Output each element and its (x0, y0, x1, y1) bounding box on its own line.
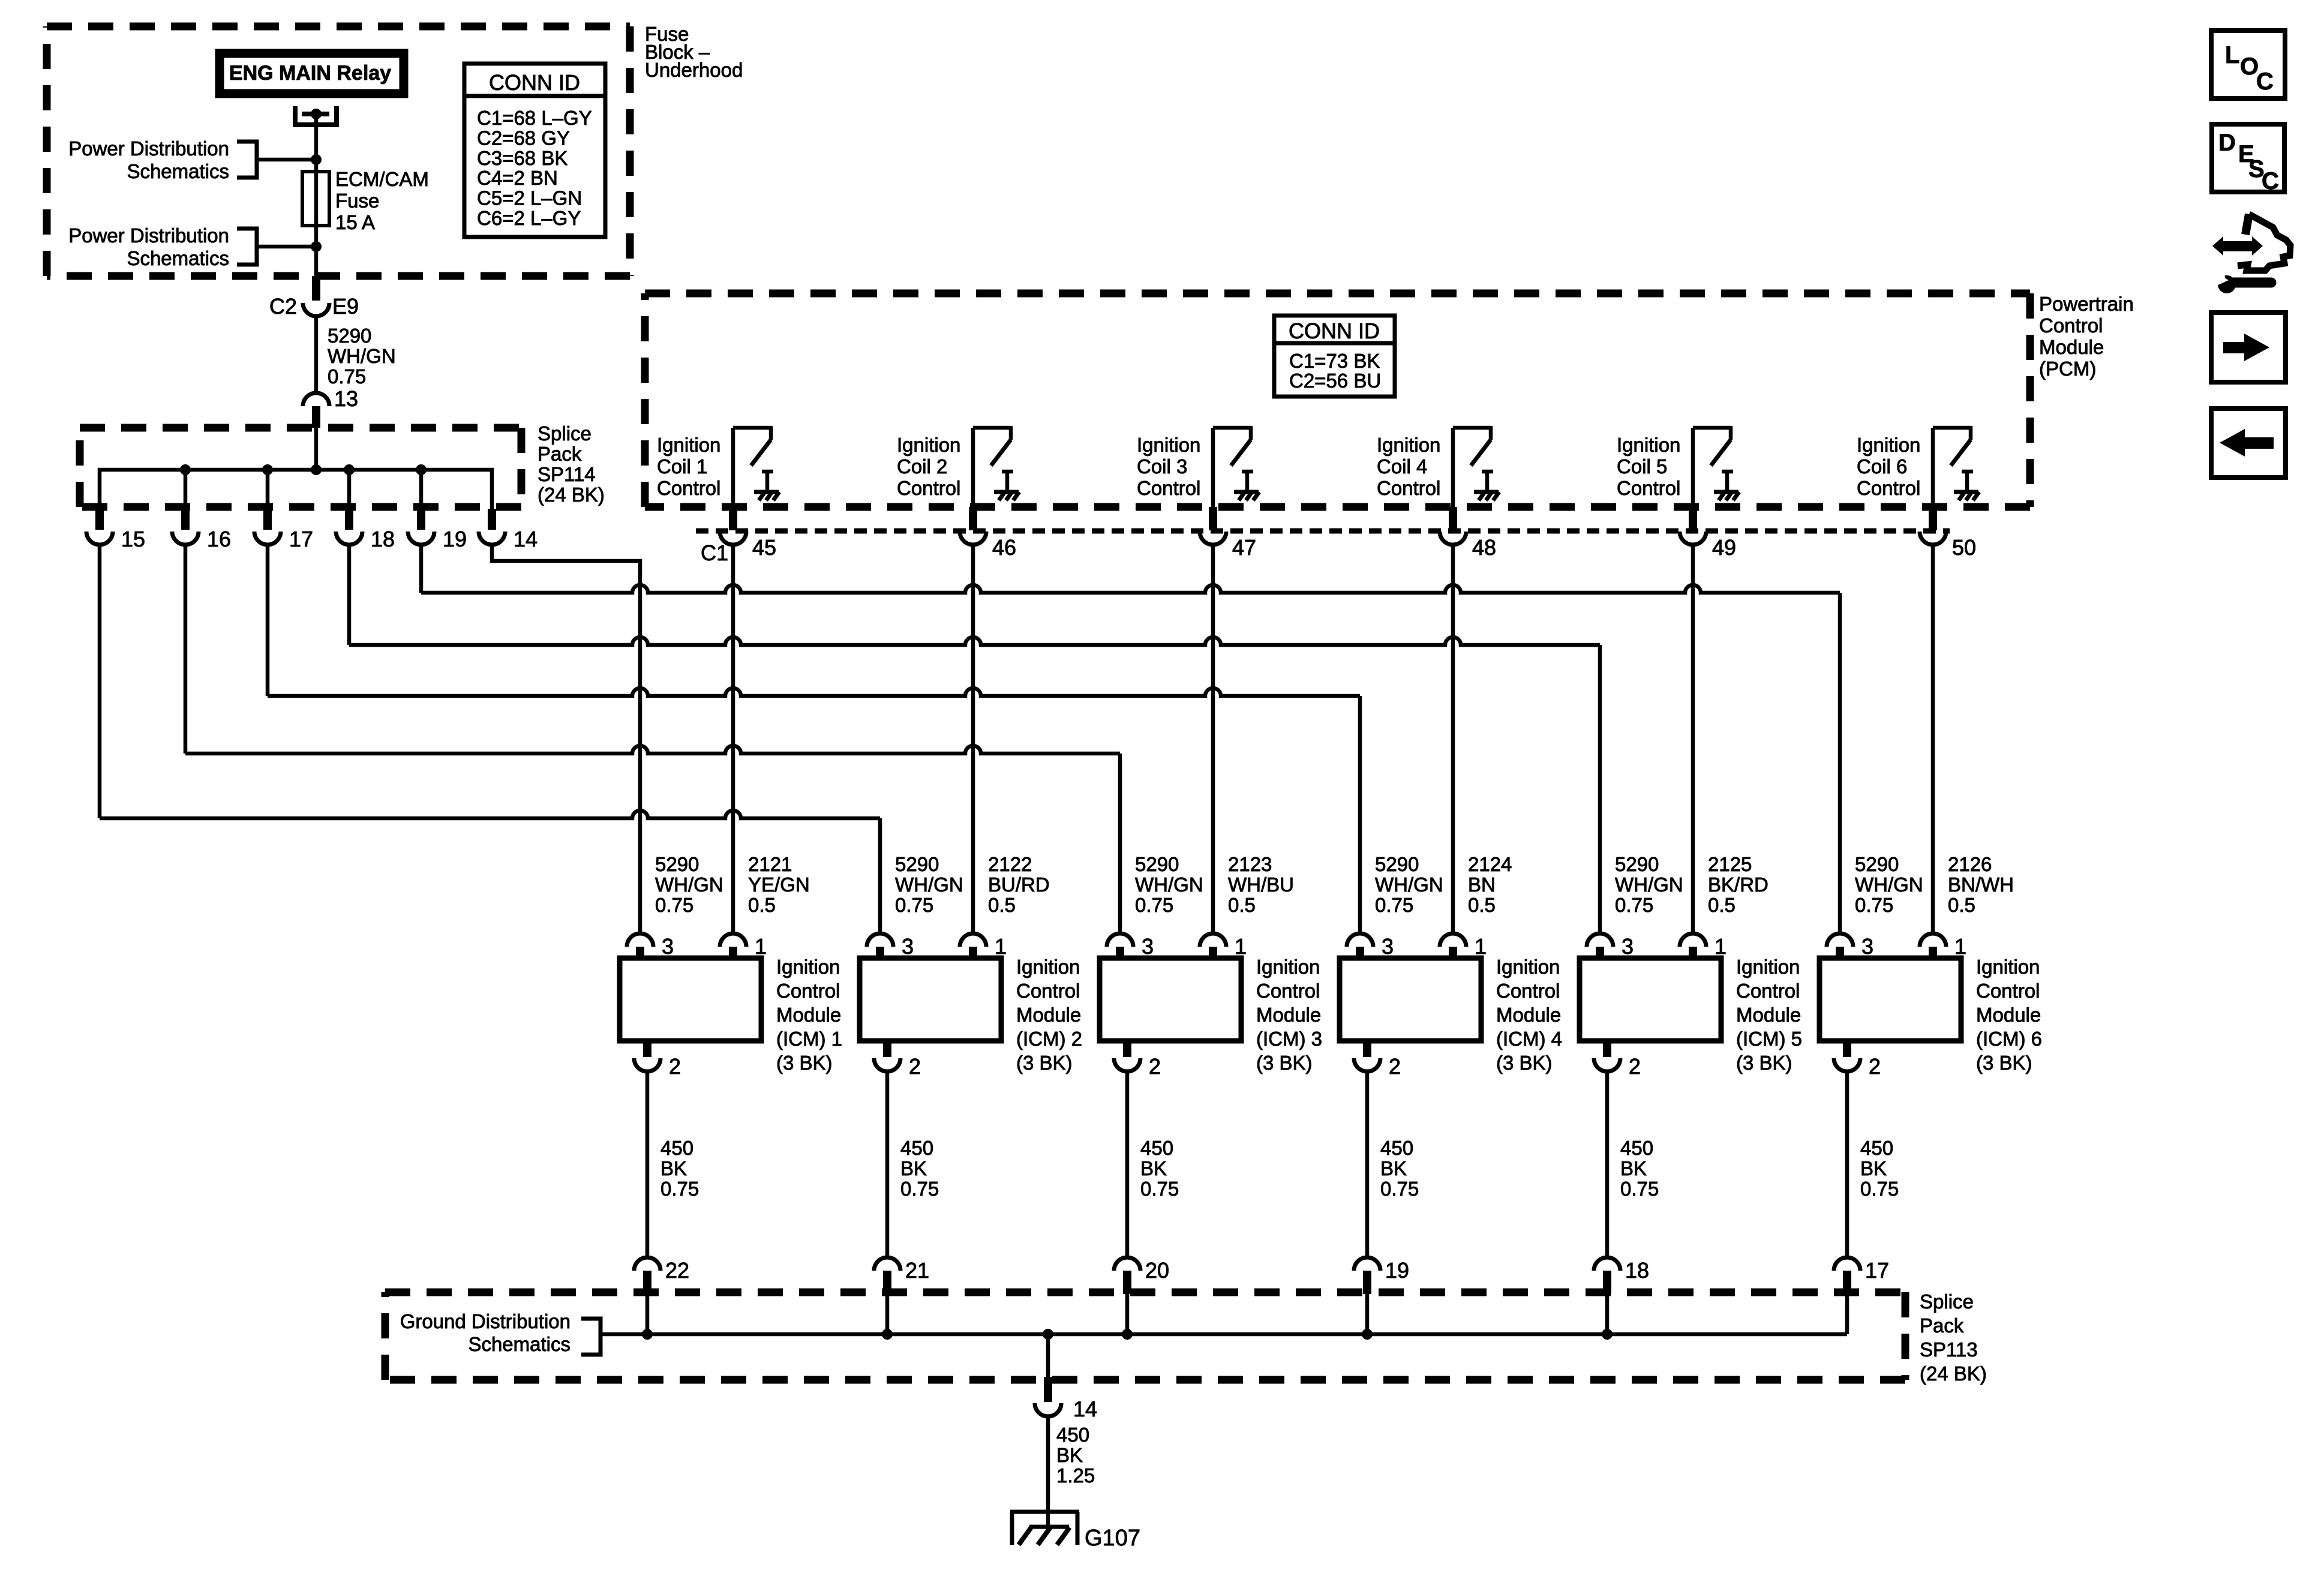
svg-text:17: 17 (1865, 1258, 1889, 1283)
ignition coil 1 control driver (731, 428, 735, 507)
svg-text:49: 49 (1712, 535, 1736, 560)
wire splice 15 row (98, 545, 102, 818)
SP114 bus junctions (180, 464, 191, 475)
PCM pins 45-50 (729, 507, 737, 530)
svg-text:1.25: 1.25 (1056, 1464, 1095, 1487)
wire splice 16 row (184, 545, 188, 754)
svg-text:19: 19 (443, 527, 467, 551)
svg-text:Ignition: Ignition (1496, 956, 1560, 978)
svg-text:0.75: 0.75 (655, 894, 693, 916)
splice pack SP114 dashed box (80, 424, 521, 432)
svg-text:Coil 1: Coil 1 (657, 455, 707, 478)
svg-text:BN/WH: BN/WH (1948, 873, 2014, 896)
svg-text:Schematics: Schematics (127, 160, 229, 182)
svg-text:0.5: 0.5 (988, 894, 1016, 916)
svg-text:C1=68 L–GY: C1=68 L–GY (477, 107, 592, 129)
svg-text:Pack: Pack (538, 443, 582, 465)
svg-text:CONN ID: CONN ID (489, 70, 580, 95)
svg-text:21: 21 (905, 1258, 929, 1283)
svg-text:Module: Module (1256, 1004, 1321, 1026)
svg-text:(3 BK): (3 BK) (1496, 1052, 1553, 1074)
ignition control module ICM5 box (1580, 958, 1721, 1041)
svg-text:3: 3 (1382, 934, 1394, 959)
powertrain control module dashed box (645, 290, 2030, 298)
node junction 1 (311, 154, 322, 165)
svg-text:48: 48 (1472, 535, 1496, 560)
svg-text:(ICM) 4: (ICM) 4 (1496, 1028, 1562, 1050)
svg-text:1: 1 (1235, 934, 1247, 959)
internal ground coil 5 (1725, 472, 1730, 491)
svg-text:0.5: 0.5 (748, 894, 776, 916)
svg-text:Coil 5: Coil 5 (1617, 455, 1667, 478)
svg-text:BK: BK (900, 1157, 927, 1179)
svg-text:450: 450 (660, 1137, 693, 1159)
svg-text:(3 BK): (3 BK) (1256, 1052, 1313, 1074)
svg-text:Control: Control (1736, 980, 1800, 1002)
svg-text:Schematics: Schematics (127, 247, 229, 269)
wire callout2 (257, 245, 316, 249)
ICM6 pin 1 (1920, 933, 1946, 947)
ignition control module ICM1 box (620, 958, 761, 1041)
conn id table fuse block (464, 64, 605, 237)
svg-text:5290: 5290 (895, 853, 939, 875)
splice pack SP113 dashed box (385, 1289, 1905, 1296)
svg-text:BK: BK (1056, 1444, 1083, 1466)
wire 450 BK 0.75 ICM2 (885, 1071, 890, 1257)
svg-text:(ICM) 5: (ICM) 5 (1736, 1028, 1802, 1050)
svg-text:3: 3 (1142, 934, 1154, 959)
svg-text:1: 1 (755, 934, 767, 959)
svg-text:(3 BK): (3 BK) (1016, 1052, 1073, 1074)
wire 450 BK 0.75 ICM6 (1845, 1071, 1849, 1257)
svg-text:C6=2 L–GY: C6=2 L–GY (477, 207, 581, 229)
svg-text:2124: 2124 (1468, 853, 1512, 875)
ICM4 pin 3 (1347, 933, 1373, 947)
svg-text:BK: BK (1380, 1157, 1407, 1179)
wire 5290 WH/GN 0.75 (314, 316, 319, 393)
svg-text:Control: Control (1256, 980, 1320, 1002)
svg-text:0.5: 0.5 (1708, 894, 1736, 916)
svg-text:WH/GN: WH/GN (655, 873, 723, 896)
internal ground coil 1 (765, 472, 770, 491)
ICM5 pin 2 (1603, 1041, 1611, 1057)
ICM5 pin 3 (1587, 933, 1613, 947)
svg-text:5290: 5290 (1615, 853, 1659, 875)
internal ground coil 2 (1005, 472, 1010, 491)
svg-text:Splice: Splice (538, 422, 591, 445)
svg-text:Module: Module (1496, 1004, 1561, 1026)
ignition control module ICM6 box (1819, 958, 1961, 1041)
svg-text:C1=73 BK: C1=73 BK (1289, 350, 1380, 372)
ICM3 pin 1 (1200, 933, 1226, 947)
svg-text:Ignition: Ignition (1016, 956, 1080, 978)
connector C2 E9 (312, 276, 320, 301)
svg-text:16: 16 (207, 527, 231, 551)
svg-text:46: 46 (992, 535, 1016, 560)
PCM pin verticals (731, 545, 735, 933)
svg-text:C2=68 GY: C2=68 GY (477, 127, 570, 149)
svg-text:WH/GN: WH/GN (1135, 873, 1203, 896)
svg-text:2: 2 (1869, 1054, 1881, 1079)
C1 connector face dotted line (696, 529, 1950, 534)
svg-text:BK: BK (660, 1157, 687, 1179)
SP114 terminals 15 16 17 18 19 14 (95, 509, 104, 530)
SP113 terminal 14 (1044, 1377, 1052, 1402)
SP113 terminal 17 (1834, 1257, 1860, 1271)
svg-text:2122: 2122 (988, 853, 1032, 875)
svg-text:Module: Module (1016, 1004, 1081, 1026)
svg-text:0.75: 0.75 (900, 1178, 939, 1200)
svg-text:E9: E9 (332, 294, 359, 319)
svg-text:Coil 4: Coil 4 (1377, 455, 1427, 478)
svg-text:Control: Control (776, 980, 840, 1002)
svg-text:(ICM) 1: (ICM) 1 (776, 1028, 842, 1050)
svg-text:Fuse: Fuse (335, 190, 379, 212)
svg-text:Schematics: Schematics (468, 1333, 571, 1355)
svg-text:450: 450 (1056, 1424, 1089, 1446)
svg-text:Module: Module (1736, 1004, 1801, 1026)
svg-text:3: 3 (1622, 934, 1634, 959)
wire 450 BK 0.75 ICM5 (1605, 1071, 1610, 1257)
ignition coil 3 control driver (1211, 428, 1215, 507)
svg-text:Ignition: Ignition (1857, 434, 1920, 456)
icon DESC (2212, 124, 2284, 192)
svg-text:450: 450 (1140, 1137, 1173, 1159)
svg-text:Ignition: Ignition (776, 956, 840, 978)
ignition coil 6 control driver (1931, 428, 1935, 507)
svg-text:(3 BK): (3 BK) (1736, 1052, 1792, 1074)
svg-text:15: 15 (121, 527, 145, 551)
svg-text:2126: 2126 (1948, 853, 1992, 875)
svg-text:Ignition: Ignition (1617, 434, 1680, 456)
svg-text:14: 14 (514, 527, 538, 551)
ignition control module ICM3 box (1100, 958, 1241, 1041)
SP113 bus junctions (642, 1329, 653, 1340)
svg-text:5290: 5290 (1855, 853, 1899, 875)
svg-text:450: 450 (900, 1137, 933, 1159)
svg-text:L: L (2225, 42, 2239, 68)
ICM1 pin 1 (720, 933, 746, 947)
svg-text:C3=68 BK: C3=68 BK (477, 147, 568, 169)
svg-text:1: 1 (1715, 934, 1727, 959)
svg-text:5290: 5290 (1135, 853, 1179, 875)
svg-text:WH/BU: WH/BU (1228, 873, 1294, 896)
internal ground coil 6 (1965, 472, 1969, 491)
svg-text:ECM/CAM: ECM/CAM (335, 168, 429, 190)
svg-text:0.5: 0.5 (1948, 894, 1975, 916)
internal ground coil 4 (1485, 472, 1490, 491)
wire splice 17 row (266, 545, 270, 696)
svg-text:SP113: SP113 (1920, 1338, 1978, 1361)
svg-text:C1: C1 (701, 541, 728, 565)
svg-text:2: 2 (909, 1054, 921, 1079)
wire 450 BK 1.25 (1046, 1416, 1050, 1527)
svg-text:50: 50 (1952, 535, 1976, 560)
svg-text:C4=2 BN: C4=2 BN (477, 167, 558, 189)
svg-text:Control: Control (2039, 314, 2103, 337)
node junction 2 (311, 241, 322, 252)
svg-text:18: 18 (371, 527, 395, 551)
wire relay to fuse (314, 116, 319, 276)
svg-text:(3 BK): (3 BK) (1976, 1052, 2032, 1074)
fuse ECM/CAM 15 A (302, 172, 329, 226)
svg-text:0.75: 0.75 (328, 365, 366, 388)
svg-text:Control: Control (1016, 980, 1080, 1002)
svg-text:Ignition: Ignition (1736, 956, 1800, 978)
svg-text:Power Distribution: Power Distribution (68, 224, 229, 247)
svg-text:450: 450 (1380, 1137, 1413, 1159)
wire 450 BK 0.75 ICM1 (645, 1071, 650, 1257)
svg-text:Control: Control (1617, 477, 1680, 499)
svg-text:Control: Control (657, 477, 720, 499)
ICM3 pin 2 (1123, 1041, 1131, 1057)
svg-text:0.75: 0.75 (1140, 1178, 1179, 1200)
svg-text:3: 3 (902, 934, 914, 959)
svg-text:BK: BK (1620, 1157, 1647, 1179)
svg-text:Ignition: Ignition (657, 434, 720, 456)
wire bus to ground (1046, 1334, 1050, 1377)
svg-text:Module: Module (776, 1004, 841, 1026)
svg-text:YE/GN: YE/GN (748, 873, 810, 896)
svg-text:(ICM) 2: (ICM) 2 (1016, 1028, 1082, 1050)
SP114 bus (100, 470, 492, 511)
svg-text:WH/GN: WH/GN (1375, 873, 1443, 896)
wire splice 19 row (419, 545, 424, 593)
svg-text:WH/GN: WH/GN (328, 345, 396, 367)
svg-text:18: 18 (1625, 1258, 1649, 1283)
svg-text:0.75: 0.75 (1855, 894, 1893, 916)
svg-text:BK: BK (1140, 1157, 1167, 1179)
ICM6 pin 3 (1827, 933, 1853, 947)
svg-text:Control: Control (1377, 477, 1440, 499)
svg-text:C: C (2262, 168, 2279, 194)
svg-text:C: C (2256, 68, 2274, 95)
ignition coil 2 control driver (971, 428, 975, 507)
svg-text:3: 3 (1861, 934, 1873, 959)
icon arrow left (2211, 409, 2286, 478)
ICM3 pin 3 (1107, 933, 1133, 947)
svg-text:(PCM): (PCM) (2039, 358, 2096, 380)
svg-text:0.75: 0.75 (1135, 894, 1173, 916)
SP113 terminal 21 (874, 1257, 900, 1271)
svg-text:1: 1 (995, 934, 1007, 959)
conn id table PCM (1274, 316, 1395, 397)
svg-text:WH/GN: WH/GN (895, 873, 963, 896)
ground G107 (1010, 1510, 1079, 1514)
svg-text:450: 450 (1860, 1137, 1893, 1159)
ICM1 pin 3 (627, 933, 653, 947)
svg-text:1: 1 (1954, 934, 1966, 959)
svg-text:Module: Module (1976, 1004, 2041, 1026)
svg-text:0.75: 0.75 (660, 1178, 699, 1200)
svg-text:1: 1 (1475, 934, 1487, 959)
svg-text:Module: Module (2039, 336, 2104, 358)
svg-text:2: 2 (1629, 1054, 1641, 1079)
svg-text:22: 22 (665, 1258, 689, 1283)
svg-text:(ICM) 6: (ICM) 6 (1976, 1028, 2042, 1050)
svg-text:SP114: SP114 (538, 463, 596, 485)
ignition control module ICM4 box (1340, 958, 1481, 1041)
svg-text:13: 13 (334, 386, 358, 411)
svg-text:(3 BK): (3 BK) (776, 1052, 833, 1074)
relay terminal E9 (293, 106, 298, 127)
ICM4 pin 1 (1440, 933, 1466, 947)
svg-text:Control: Control (1137, 477, 1200, 499)
svg-text:19: 19 (1385, 1258, 1409, 1283)
svg-text:BU/RD: BU/RD (988, 873, 1050, 896)
svg-text:47: 47 (1232, 535, 1256, 560)
svg-text:C2=56 BU: C2=56 BU (1289, 370, 1381, 392)
svg-text:17: 17 (289, 527, 313, 551)
svg-text:Control: Control (897, 477, 960, 499)
svg-text:Coil 2: Coil 2 (897, 455, 947, 478)
fuse block underhood dashed box (47, 23, 630, 31)
svg-text:Ground Distribution: Ground Distribution (400, 1310, 571, 1332)
svg-text:2123: 2123 (1228, 853, 1272, 875)
svg-text:0.75: 0.75 (1860, 1178, 1899, 1200)
svg-text:Pack: Pack (1920, 1314, 1964, 1337)
svg-text:WH/GN: WH/GN (1615, 873, 1683, 896)
terminal 13 (303, 393, 329, 406)
ICM4 pin 2 (1363, 1041, 1371, 1057)
svg-text:CONN ID: CONN ID (1289, 319, 1380, 343)
svg-text:Splice: Splice (1920, 1290, 1974, 1313)
SP113 terminal 22 (634, 1257, 660, 1271)
wire 450 BK 0.75 ICM3 (1125, 1071, 1130, 1257)
svg-text:C5=2 L–GN: C5=2 L–GN (477, 187, 582, 209)
wire splice 18 row (347, 545, 352, 645)
svg-text:(24 BK): (24 BK) (1920, 1362, 1987, 1385)
svg-text:45: 45 (752, 535, 776, 560)
svg-text:WH/GN: WH/GN (1855, 873, 1923, 896)
wire pin14 to ICM1 (492, 545, 640, 933)
svg-text:Ignition: Ignition (1256, 956, 1320, 978)
svg-text:2: 2 (1389, 1054, 1401, 1079)
svg-text:Power Distribution: Power Distribution (68, 137, 229, 160)
icon arrow right (2211, 313, 2286, 382)
svg-text:0.5: 0.5 (1468, 894, 1496, 916)
svg-text:Control: Control (1496, 980, 1560, 1002)
svg-text:0.75: 0.75 (895, 894, 933, 916)
SP113 terminal 20 (1114, 1257, 1140, 1271)
svg-text:2: 2 (669, 1054, 681, 1079)
svg-text:2: 2 (1149, 1054, 1161, 1079)
svg-text:0.75: 0.75 (1380, 1178, 1419, 1200)
svg-text:14: 14 (1073, 1397, 1097, 1421)
svg-text:D: D (2218, 130, 2236, 156)
svg-text:ENG MAIN Relay: ENG MAIN Relay (229, 62, 391, 85)
svg-text:5290: 5290 (328, 325, 371, 347)
icon wrench/part (2212, 236, 2223, 256)
svg-text:5290: 5290 (1375, 853, 1419, 875)
svg-text:(ICM) 3: (ICM) 3 (1256, 1028, 1322, 1050)
wire callout1 (257, 158, 316, 162)
svg-text:Ignition: Ignition (1377, 434, 1440, 456)
svg-text:Ignition: Ignition (897, 434, 960, 456)
SP113 terminal 18 (1594, 1257, 1620, 1271)
svg-text:0.5: 0.5 (1228, 894, 1256, 916)
svg-text:C2: C2 (269, 294, 297, 319)
svg-text:Control: Control (1976, 980, 2040, 1002)
svg-text:(24 BK): (24 BK) (538, 484, 605, 506)
svg-text:3: 3 (662, 934, 674, 959)
svg-text:Coil 6: Coil 6 (1857, 455, 1907, 478)
ICM2 pin 1 (960, 933, 986, 947)
ENG MAIN Relay (220, 53, 404, 94)
ICM2 pin 2 (883, 1041, 891, 1057)
ICM6 pin 2 (1843, 1041, 1851, 1057)
svg-text:BK/RD: BK/RD (1708, 873, 1768, 896)
SP113 ground bus (600, 1332, 1847, 1337)
svg-text:450: 450 (1620, 1137, 1653, 1159)
icon LOC (2211, 31, 2285, 98)
svg-text:0.75: 0.75 (1620, 1178, 1659, 1200)
svg-text:20: 20 (1145, 1258, 1169, 1283)
svg-text:5290: 5290 (655, 853, 699, 875)
svg-text:Ignition: Ignition (1137, 434, 1200, 456)
svg-text:0.75: 0.75 (1615, 894, 1653, 916)
svg-text:Ignition: Ignition (1976, 956, 2040, 978)
ignition coil 4 control driver (1451, 428, 1455, 507)
svg-text:BN: BN (1468, 873, 1496, 896)
svg-text:15 A: 15 A (335, 211, 375, 233)
internal ground coil 3 (1245, 472, 1250, 491)
ICM2 pin 3 (867, 933, 893, 947)
wire 450 BK 0.75 ICM4 (1365, 1071, 1370, 1257)
svg-text:0.75: 0.75 (1375, 894, 1413, 916)
ignition coil 5 control driver (1691, 428, 1695, 507)
svg-text:Powertrain: Powertrain (2039, 293, 2134, 315)
svg-text:2125: 2125 (1708, 853, 1752, 875)
svg-text:2121: 2121 (748, 853, 792, 875)
ICM5 pin 1 (1680, 933, 1706, 947)
svg-text:G107: G107 (1085, 1526, 1140, 1551)
ICM1 pin 2 (643, 1041, 651, 1057)
svg-text:Control: Control (1857, 477, 1920, 499)
svg-text:Coil 3: Coil 3 (1137, 455, 1187, 478)
svg-text:BK: BK (1860, 1157, 1887, 1179)
ignition control module ICM2 box (860, 958, 1001, 1041)
svg-text:Underhood: Underhood (645, 59, 743, 81)
SP113 terminal 19 (1354, 1257, 1380, 1271)
